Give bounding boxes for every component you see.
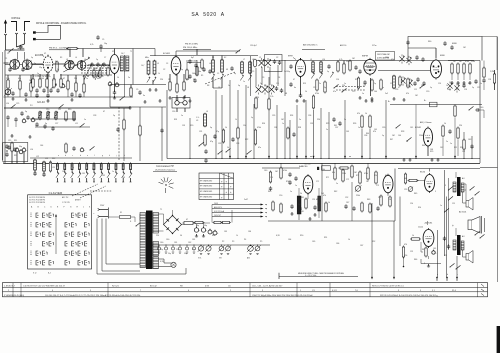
svg-text:47k: 47k <box>406 93 409 95</box>
rail y55 <box>150 55 258 57</box>
power bus y245 <box>152 244 270 246</box>
resistor R16 <box>183 81 185 92</box>
capacitor C60c <box>53 82 56 87</box>
label 6AB8 <box>163 53 171 55</box>
svg-text:47k: 47k <box>357 113 360 115</box>
wire drop x394 <box>393 221 395 280</box>
bottom table frame <box>3 283 488 297</box>
capacitor C35 <box>338 121 341 126</box>
svg-text:5: 5 <box>435 191 436 193</box>
wire mains loop inner <box>106 219 140 265</box>
svg-text:10p: 10p <box>104 43 107 45</box>
svg-text:B3 C12: B3 C12 <box>150 285 158 287</box>
label AM 517m <box>302 44 325 50</box>
band coil L6 <box>85 163 88 182</box>
svg-text:C39: C39 <box>382 127 385 129</box>
resistor R61 <box>123 119 125 131</box>
trimmer X3 <box>256 85 262 95</box>
svg-text:1k: 1k <box>117 77 119 79</box>
wire speaker feeder <box>480 167 498 169</box>
capacitor C4 <box>46 93 49 98</box>
svg-text:R20: R20 <box>190 125 193 127</box>
wire drop x447 <box>446 197 448 281</box>
band coil L5 <box>78 163 81 182</box>
svg-text:2n: 2n <box>319 83 321 85</box>
resistor R28 <box>312 95 314 110</box>
svg-text:100 100 150 47 1k 4,7 47 150mA: 100 100 150 47 1k 4,7 47 150mA 220 2,2 C… <box>45 294 140 297</box>
label AD3401 <box>459 211 466 214</box>
svg-text:AD 3401: AD 3401 <box>459 211 466 214</box>
wire drop x345 <box>344 100 346 159</box>
svg-text:C47: C47 <box>346 202 349 204</box>
speaker tweeter 2 <box>466 251 473 264</box>
svg-text:C30 4p7: C30 4p7 <box>250 45 257 47</box>
svg-text:C45: C45 <box>374 129 377 131</box>
svg-text:150p: 150p <box>286 71 290 73</box>
wire x400 <box>400 197 401 247</box>
resistor R56 <box>237 127 239 140</box>
pot P7 <box>408 187 413 192</box>
scan artifact bar <box>497 326 500 353</box>
capacitor C6 <box>90 62 93 67</box>
label C08 <box>300 199 319 213</box>
capacitor C62a <box>202 67 205 72</box>
svg-text:470k: 470k <box>465 61 469 63</box>
svg-text:4p7: 4p7 <box>191 57 194 59</box>
mains plug <box>93 208 109 219</box>
antenna feeder wire <box>4 50 6 163</box>
svg-text:220k: 220k <box>471 61 475 63</box>
svg-text:C43: C43 <box>346 131 349 133</box>
svg-text:C70: C70 <box>270 177 273 179</box>
svg-text:C28: C28 <box>93 115 96 117</box>
svg-text:e: e <box>87 155 88 157</box>
svg-text:12p: 12p <box>64 119 67 121</box>
main bus wire y163 <box>4 163 481 165</box>
resistor R21 <box>371 79 373 92</box>
coil L1 <box>73 111 75 121</box>
svg-text:L8: L8 <box>247 87 249 89</box>
output transformer 2 core <box>457 235 461 255</box>
svg-text:R36: R36 <box>262 123 265 125</box>
left lower frame <box>3 143 28 162</box>
svg-text:C35: C35 <box>272 115 275 117</box>
capacitor C37 <box>448 129 451 134</box>
tube V1 ECC85 <box>43 55 52 74</box>
resistor R55 <box>287 127 289 140</box>
svg-text:1n: 1n <box>112 171 114 173</box>
svg-text:L10: L10 <box>6 103 9 105</box>
svg-text:1k: 1k <box>305 91 307 93</box>
capacitor C51 <box>21 67 24 72</box>
ground g2 <box>24 98 27 101</box>
svg-text:C22: C22 <box>477 87 480 89</box>
svg-text:L10: L10 <box>322 59 325 61</box>
svg-text:C39: C39 <box>310 123 313 125</box>
svg-text:SA 5020 A: SA 5020 A <box>191 12 224 18</box>
tube V10 EL84 <box>425 173 435 193</box>
svg-text:47k: 47k <box>332 172 335 174</box>
svg-text:2n: 2n <box>299 119 301 121</box>
svg-text:C7: C7 <box>104 57 106 59</box>
wire y127 <box>35 126 90 128</box>
svg-text:L1: L1 <box>10 61 12 63</box>
svg-text:B-4: B-4 <box>48 273 51 275</box>
svg-text:C72: C72 <box>346 179 349 181</box>
wire drop x386 <box>385 100 387 159</box>
tube V11 EL84b <box>423 228 434 248</box>
resistor R57 <box>316 79 318 92</box>
resistor RH1 <box>339 167 350 169</box>
svg-text:C33: C33 <box>182 125 185 127</box>
capacitor C33 <box>204 158 207 163</box>
resistor R14 <box>169 81 171 92</box>
svg-text:R13: R13 <box>303 83 306 85</box>
wire v7b <box>428 138 458 156</box>
svg-text:100k: 100k <box>447 89 451 91</box>
wire drop x230 <box>229 80 231 159</box>
svg-text:220k: 220k <box>419 135 423 137</box>
elcap Cb1 <box>108 81 114 86</box>
capacitor C14 <box>51 126 54 131</box>
svg-text:1k: 1k <box>158 73 160 75</box>
svg-text:C73: C73 <box>376 185 379 187</box>
capacitor C19 <box>138 90 141 95</box>
switch s13 <box>420 84 425 88</box>
switch s15 <box>52 84 57 88</box>
svg-text:4,7k: 4,7k <box>90 44 93 46</box>
ground g12 <box>364 99 373 102</box>
switch s10 <box>470 186 480 195</box>
svg-text:R42: R42 <box>334 191 337 193</box>
svg-text:R46: R46 <box>414 259 417 261</box>
capacitor C61b <box>26 115 29 120</box>
tube V5 EBF89 <box>362 56 376 76</box>
trimmer X11 <box>454 83 459 92</box>
svg-text:47k: 47k <box>373 131 376 133</box>
resistor Ra3 <box>53 74 55 89</box>
resistor R20 <box>357 77 359 90</box>
resistor R26 <box>255 97 257 110</box>
wire drop x216 <box>215 90 217 159</box>
svg-text:1n: 1n <box>86 78 88 80</box>
capacitor C27 <box>358 69 361 74</box>
svg-text:R47: R47 <box>422 249 425 251</box>
svg-text:2n2: 2n2 <box>298 204 301 206</box>
svg-text:25µ: 25µ <box>192 249 195 251</box>
wire v8 <box>213 56 222 89</box>
svg-text:L1: L1 <box>14 59 16 61</box>
band switch mesh 1 <box>81 63 110 80</box>
trimmer t5 <box>330 72 333 78</box>
wire drop x285 <box>284 112 286 159</box>
svg-text:R33: R33 <box>174 119 177 121</box>
shield box fm <box>110 85 166 108</box>
wire circle tops <box>18 48 25 60</box>
resistor Ra0 <box>32 74 34 89</box>
resistor R40 <box>351 165 353 179</box>
wire v2 top <box>114 49 116 54</box>
svg-text:4,7k: 4,7k <box>339 59 342 61</box>
switch s16 <box>64 60 74 66</box>
svg-text:R31: R31 <box>14 155 17 157</box>
svg-text:100: 100 <box>41 78 44 80</box>
svg-text:47: 47 <box>458 83 460 85</box>
svg-text:2p: 2p <box>96 59 98 61</box>
label CLAVIER <box>49 191 63 195</box>
switch s8 <box>469 106 474 110</box>
resistor R31 <box>454 105 456 159</box>
audio extra parts <box>344 202 379 214</box>
svg-text:P5: P5 <box>260 241 262 243</box>
switch s17 <box>450 263 461 269</box>
svg-text:ARRET: ARRET <box>75 199 81 202</box>
svg-text:AM 190: AM 190 <box>340 44 346 47</box>
svg-text:2n: 2n <box>446 141 448 143</box>
svg-text:R12: R12 <box>52 158 55 160</box>
svg-text:C52: C52 <box>345 197 348 199</box>
svg-text:C17: C17 <box>363 85 366 87</box>
svg-text:C2: C2 <box>276 57 278 59</box>
svg-text:L2: L2 <box>26 59 28 61</box>
coil L2 <box>311 61 314 79</box>
svg-text:C.L.: C.L. <box>196 117 200 119</box>
capacitor C21 <box>193 78 196 83</box>
svg-text:R72: R72 <box>356 175 359 177</box>
trimmer X7 <box>406 56 411 65</box>
potentiometer row <box>198 245 261 255</box>
IF box bottom edge <box>167 158 480 160</box>
ferrite coil B <box>42 161 45 177</box>
transformer secondary 1 <box>153 213 159 234</box>
resistor R1 <box>7 79 9 90</box>
svg-text:C40: C40 <box>264 170 267 172</box>
osc coil 2 <box>77 60 86 69</box>
svg-text:DIPOLE: DIPOLE <box>12 17 21 20</box>
transformer primary winding <box>140 213 146 268</box>
svg-text:L6: L6 <box>209 63 211 65</box>
svg-text:4n7: 4n7 <box>97 78 100 80</box>
label EL84 no1 <box>420 172 426 174</box>
svg-text:68p: 68p <box>94 68 97 70</box>
IF box left edge <box>166 90 168 159</box>
band coil L9 <box>107 163 110 182</box>
dipole terminal blob 2 <box>33 38 60 40</box>
wire drop x246 <box>245 85 247 159</box>
band coil L3 <box>63 163 66 182</box>
label ECC85 <box>35 54 43 57</box>
resistor R7 <box>67 80 69 91</box>
label droit <box>376 52 395 61</box>
svg-text:C43: C43 <box>468 139 471 141</box>
svg-text:1n: 1n <box>282 123 284 125</box>
svg-text:1k: 1k <box>412 235 414 237</box>
svg-text:C90: C90 <box>410 203 413 205</box>
svg-text:C12: C12 <box>313 87 316 89</box>
svg-text:1n: 1n <box>290 191 292 193</box>
svg-text:220: 220 <box>160 79 163 81</box>
clavier switch grid <box>31 213 90 265</box>
svg-text:R25: R25 <box>326 123 329 125</box>
wire drop x238 <box>237 90 239 159</box>
trimmer X1 <box>259 58 265 68</box>
trimmer X5 <box>269 85 275 95</box>
svg-text:3n: 3n <box>143 95 145 97</box>
svg-text:k: k <box>124 155 125 157</box>
svg-text:1k: 1k <box>348 239 350 241</box>
svg-text:50µ: 50µ <box>204 225 207 227</box>
svg-text:R43: R43 <box>367 199 370 201</box>
svg-text:6p: 6p <box>88 57 90 59</box>
wire x133 drop <box>132 49 134 85</box>
audio box top stub <box>262 167 300 169</box>
svg-text:1k: 1k <box>101 68 103 70</box>
supply arrows <box>212 203 268 219</box>
svg-text:1n: 1n <box>37 73 39 75</box>
capacitor C61a <box>20 111 23 116</box>
svg-text:L14: L14 <box>30 149 33 151</box>
label under table <box>244 199 248 201</box>
svg-text:h: h <box>109 155 110 157</box>
svg-text:C19: C19 <box>390 83 393 85</box>
audio box bottom <box>268 220 395 222</box>
resistor R2 <box>19 80 21 91</box>
svg-text:R8 S1 C77 R6 R1 C4 R9: R8 S1 C77 R6 R1 C4 R9 C8 R5 C1 <box>372 285 404 287</box>
svg-text:5p: 5p <box>238 85 240 87</box>
svg-text:AM 190-580 m: AM 190-580 m <box>303 44 318 47</box>
capacitor C38b <box>288 172 291 185</box>
svg-text:L12: L12 <box>36 156 39 158</box>
resistor R47 <box>425 247 427 258</box>
svg-text:1k: 1k <box>225 127 227 129</box>
svg-text:47: 47 <box>293 79 295 81</box>
inductor box L5 <box>424 100 437 107</box>
svg-text:22k: 22k <box>374 175 377 177</box>
svg-text:ECC85: ECC85 <box>35 54 43 57</box>
top label sprinkle <box>250 41 466 49</box>
svg-text:2n2: 2n2 <box>385 93 388 95</box>
clavier header text <box>29 196 81 204</box>
clavier arrow <box>55 214 57 254</box>
svg-text:C62: C62 <box>188 242 191 244</box>
svg-text:c: c <box>72 155 73 157</box>
choke dark 2 <box>318 196 321 218</box>
audio box right <box>394 169 396 222</box>
wire trim links <box>251 56 286 96</box>
resistor R19 <box>349 60 351 72</box>
capacitor C31 <box>204 149 207 154</box>
svg-text:1n: 1n <box>72 167 74 169</box>
svg-text:12p: 12p <box>39 67 42 69</box>
resistor R24 <box>222 129 224 144</box>
svg-text:1n: 1n <box>284 71 286 73</box>
svg-text:1k: 1k <box>227 147 229 149</box>
capacitor Ca1 <box>42 88 45 93</box>
resistor R17 <box>337 61 339 73</box>
svg-text:220: 220 <box>346 61 349 63</box>
svg-text:R41: R41 <box>301 197 304 199</box>
svg-text:C9: C9 <box>136 89 138 91</box>
svg-text:B+: B+ <box>424 100 426 102</box>
svg-text:22-B-4: 22-B-4 <box>418 227 423 229</box>
wire drop x321 <box>320 108 322 159</box>
svg-text:LS-Verdeelschakelaar: LS-Verdeelschakelaar <box>155 169 176 172</box>
IF transformer T2 box <box>172 95 190 112</box>
svg-text:2,2M: 2,2M <box>490 71 494 73</box>
svg-text:5p: 5p <box>324 87 326 89</box>
resistor R63 <box>186 69 188 81</box>
wire top bus y45 <box>66 49 155 57</box>
svg-text:C6: C6 <box>218 87 220 89</box>
svg-text:R29: R29 <box>430 151 433 153</box>
wire v9 <box>301 61 351 96</box>
resistor R25 <box>254 129 256 146</box>
svg-text:1n: 1n <box>480 83 482 85</box>
svg-text:C60: C60 <box>160 242 163 244</box>
resistor R32 <box>442 125 444 138</box>
elcap C43 <box>201 227 208 233</box>
dipole arm left <box>11 22 18 37</box>
ground g1 <box>11 97 14 100</box>
resistor R34 <box>269 171 271 184</box>
svg-text:3: 3 <box>445 185 446 187</box>
svg-text:R27: R27 <box>456 89 459 91</box>
svg-text:1n: 1n <box>440 205 442 207</box>
svg-text:C86: C86 <box>248 231 251 233</box>
svg-text:R71: R71 <box>326 177 329 179</box>
wire drop x329 <box>328 112 330 159</box>
resistor R11 <box>11 142 13 153</box>
wire drop x297 <box>296 105 298 159</box>
capacitor C23 <box>286 64 293 73</box>
svg-text:70n C40: 70n C40 <box>304 164 310 166</box>
svg-text:T1: T1 <box>130 51 132 53</box>
ground g6 <box>10 134 13 137</box>
elcap C17 <box>15 147 21 152</box>
capacitor C52 <box>188 59 191 64</box>
svg-text:C53: C53 <box>378 197 381 199</box>
svg-text:6,3V 2OOmA: 6,3V 2OOmA <box>214 210 225 213</box>
svg-text:220: 220 <box>156 235 159 237</box>
svg-text:5p: 5p <box>327 71 329 73</box>
svg-text:4p: 4p <box>234 73 236 75</box>
svg-text:6,3 R: 6,3 R <box>332 290 337 292</box>
svg-text:R44: R44 <box>366 133 369 135</box>
ground g19 <box>358 96 405 101</box>
resistor R18 <box>343 63 345 75</box>
svg-text:C32: C32 <box>218 143 221 145</box>
switch s11 <box>475 231 485 238</box>
resistor R33 <box>457 127 459 140</box>
svg-text:R24: R24 <box>290 115 293 117</box>
coil L15 <box>393 75 396 89</box>
svg-text:C2: C2 <box>7 53 9 55</box>
resistor R3 <box>30 82 32 93</box>
svg-text:47: 47 <box>63 78 65 80</box>
resistor R22 <box>493 70 495 90</box>
svg-text:S1: S1 <box>212 57 214 59</box>
resistor R41 <box>359 171 361 185</box>
ground g9 <box>128 106 131 109</box>
svg-text:L20: L20 <box>52 167 55 169</box>
capacitor C50 <box>8 67 11 72</box>
tube V7 ECH81b <box>415 127 433 148</box>
svg-text:L4: L4 <box>84 59 86 61</box>
svg-text:C3: C3 <box>262 77 264 79</box>
capacitor C29c <box>363 80 366 85</box>
label EABC80 <box>299 165 308 168</box>
wire o3 <box>465 184 467 200</box>
